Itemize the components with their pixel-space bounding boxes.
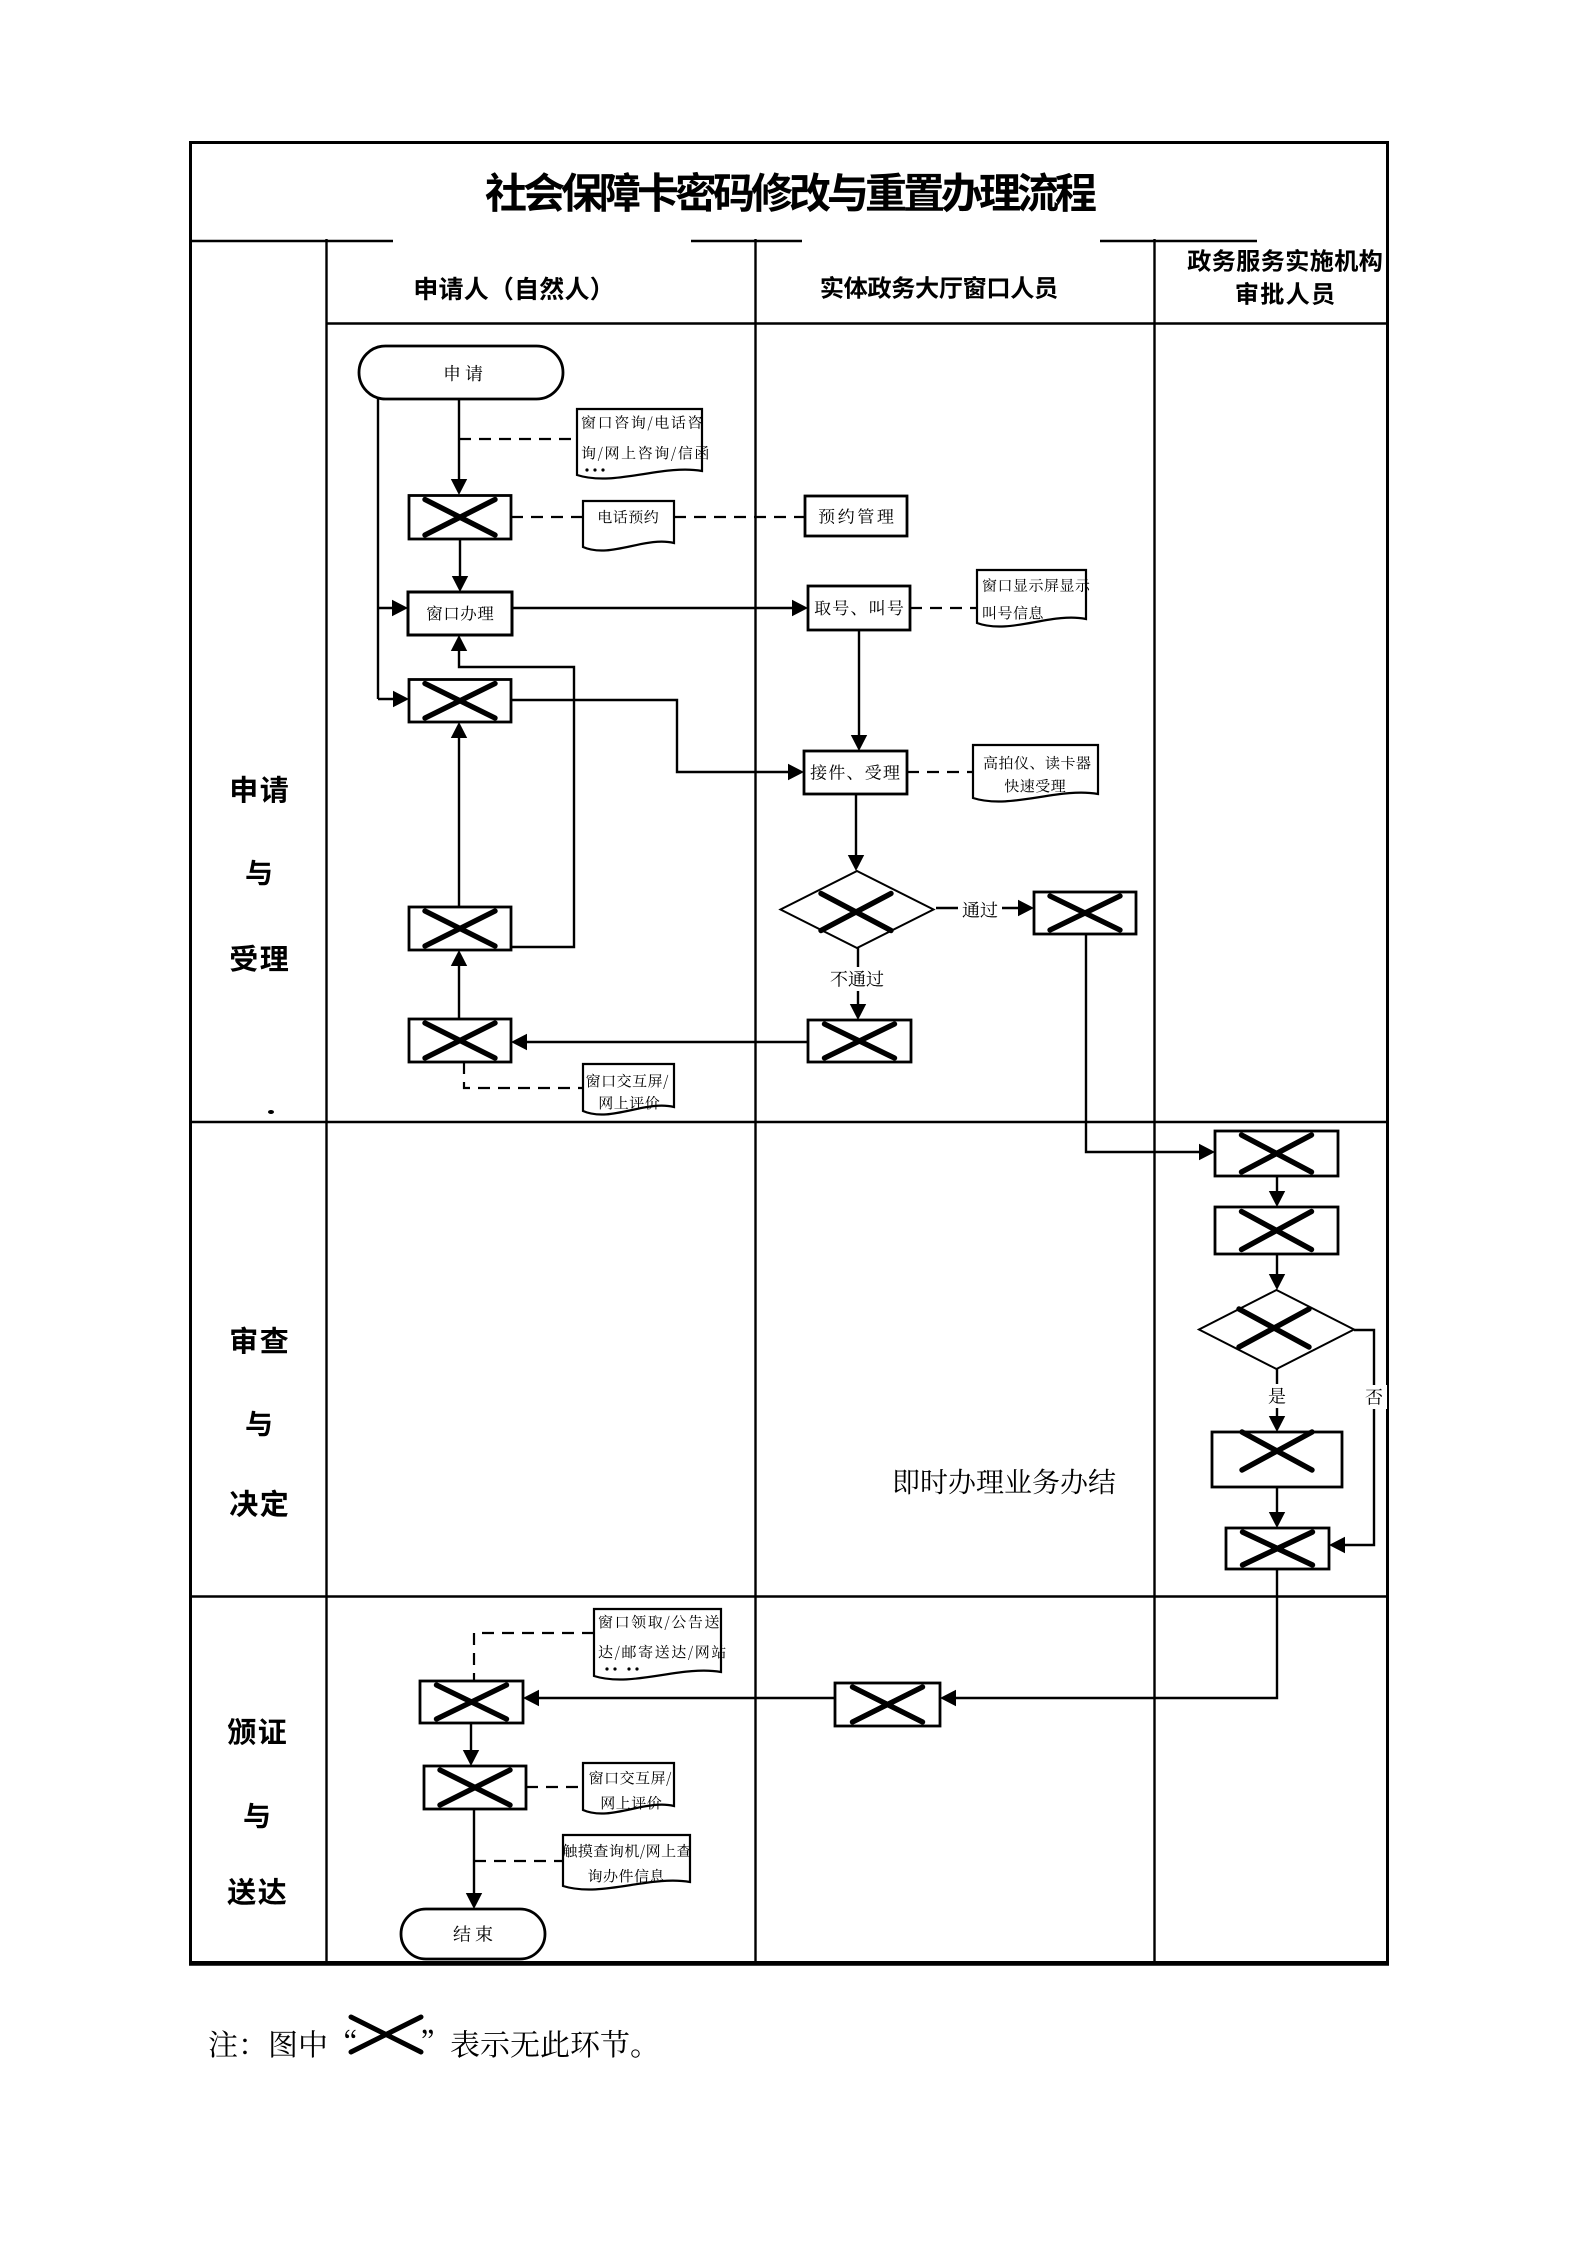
arrowhead into X2 left [393, 691, 409, 707]
wire X6 to X4 [527, 1041, 808, 1043]
col1/col2 lane divider [754, 239, 756, 1962]
process box 接件、受理 [804, 751, 907, 794]
row1 label 申请 [232, 776, 288, 803]
no-step box XC [1212, 1432, 1342, 1487]
arrowhead into end oval top [466, 1893, 482, 1909]
wire 取号叫号 to 接件受理 [858, 630, 860, 737]
footnote suffix ”表示无此环节。 [422, 2030, 639, 2058]
wire X2 right to 接件受理 [511, 700, 790, 772]
doc4 高拍仪、读卡器快速受理 [973, 745, 1098, 802]
doc6 line1 [589, 1771, 671, 1786]
arrowhead into 窗口办理 bottom [451, 635, 467, 651]
wire 接件受理 to diamond1 [855, 794, 857, 857]
doc2 电话预约 [583, 501, 674, 551]
wire XD down-left to XE [956, 1569, 1277, 1698]
arrowhead into XG top [463, 1750, 479, 1766]
row2 note 即时办理业务办结 [895, 1468, 1116, 1494]
no-step box XG [424, 1766, 526, 1809]
process box 预约管理 [805, 496, 907, 536]
decision diamond2 [1199, 1290, 1354, 1369]
end oval 结束 [401, 1909, 545, 1959]
no-step box XB [1215, 1207, 1338, 1254]
wire diamond2 bottom 是 to XC [1276, 1369, 1278, 1418]
doc5 窗口领取/公告送达/邮寄送达/网站 [594, 1609, 721, 1680]
doc5 line2 [599, 1645, 726, 1660]
wire XG to end oval [473, 1809, 475, 1895]
doc6 窗口交互屏/网上评价 [583, 1763, 674, 1814]
no-step box XF [420, 1681, 523, 1723]
doc4 line2 [1005, 779, 1066, 793]
label 是 [1264, 1384, 1290, 1408]
X inside diamond1 [821, 894, 891, 931]
wire oval1 left branch down [377, 393, 379, 699]
footnote prefix 注：图中“ [209, 2030, 356, 2058]
header col3 line1 政务服务实施机构 [1188, 249, 1382, 272]
wire X1 to 窗口办理 [459, 539, 461, 578]
doc2 text 电话预约 [599, 510, 658, 524]
arrowhead into X3 bottom [451, 950, 467, 966]
row divider 2 [191, 1595, 1387, 1597]
arrowhead into XC top [1269, 1416, 1285, 1432]
no-step box X6 [808, 1020, 911, 1062]
decision diamond1 [781, 871, 934, 948]
dashed link to doc1 [459, 438, 577, 440]
wire diamond1 bottom 不通过 to X6 [857, 948, 859, 1006]
arrowhead into XD right [1329, 1537, 1345, 1553]
no-step box X5 [1034, 892, 1136, 934]
arrowhead into XE right [940, 1690, 956, 1706]
wire oval1 to X1 [458, 399, 460, 481]
wire 窗口办理 to 取号叫号 [512, 607, 794, 609]
arrowhead into X2 bottom [451, 722, 467, 738]
wire branch into 窗口办理 left [378, 607, 395, 609]
wire X3 up to X2 [458, 736, 460, 907]
row1 label 受理 [230, 945, 288, 972]
label column divider [325, 239, 327, 1962]
wire diamond1 right 通过 to X5 [936, 907, 1020, 909]
arrowhead into XB top [1269, 1191, 1285, 1207]
no-step box XD [1226, 1528, 1329, 1569]
row3 label 颁证 [228, 1718, 286, 1745]
footnote X symbol [351, 2017, 421, 2052]
dashed X1 to doc2 [511, 516, 583, 518]
feedback X3 to 窗口办理 bottom [459, 649, 574, 947]
doc1 dots [585, 468, 588, 471]
arrowhead into X5 left [1018, 900, 1034, 916]
arrowhead into X1 top [451, 479, 467, 495]
row2 label 决定 [230, 1489, 288, 1517]
no-step box XA [1215, 1131, 1338, 1176]
doc8 窗口交互屏/网上评价 [583, 1064, 674, 1115]
outer table border [191, 143, 1388, 1963]
label 不通过 [826, 967, 888, 991]
dashed X4 to doc8 [464, 1062, 583, 1088]
title 社会保障卡密码修改与重置办理流程 [486, 172, 1096, 212]
label 否 [1361, 1385, 1387, 1409]
doc4 line1 [984, 756, 1091, 770]
arrowhead into X4 right [511, 1034, 527, 1050]
no-step box X4 [409, 1019, 511, 1062]
wire diamond2 right 否 to XD [1345, 1330, 1374, 1545]
title row partial bottom border seg1 [190, 240, 393, 242]
dashed XG to doc6 [526, 1786, 583, 1788]
box text 预约管理 [819, 508, 894, 524]
arrowhead into diamond2 top [1269, 1274, 1285, 1290]
header col3 line2 审批人员 [1237, 282, 1334, 305]
header col1 申请人（自然人） [416, 277, 598, 301]
doc8 line1 [586, 1074, 668, 1089]
outer bottom border (thick) [189, 1961, 1389, 1966]
wire XE to XF [539, 1697, 835, 1699]
label 通过 [958, 898, 1002, 922]
no-step box X2 [409, 680, 511, 723]
oval text 结束 [454, 1925, 493, 1942]
title row partial bottom border seg3 [1100, 240, 1257, 242]
doc5 dots [605, 1667, 608, 1670]
box text 接件、受理 [811, 764, 900, 780]
wire X4 up to X3 [458, 964, 460, 1019]
arrowhead into XF right [523, 1690, 539, 1706]
row3 label 送达 [227, 1878, 286, 1905]
arrowhead into 接件受理 left [788, 764, 804, 780]
doc1 line1 [582, 415, 702, 430]
row divider 1 [191, 1121, 1387, 1123]
col2/col3 lane divider [1153, 239, 1155, 1962]
no-step box XE [835, 1683, 940, 1726]
doc7 line1 [563, 1844, 691, 1859]
row3 label 与 [244, 1803, 268, 1829]
box text 窗口办理 [427, 605, 493, 620]
wire XB to diamond2 [1276, 1254, 1278, 1276]
doc1 窗口咨询/电话咨询/网上咨询/信函 [577, 409, 702, 479]
no-step box X1 [409, 496, 511, 540]
wire X5 down to XA [1086, 934, 1201, 1152]
arrowhead into 取号叫号 left [792, 600, 808, 616]
dashed 取号叫号 to doc3 [910, 607, 977, 609]
wire XA to XB [1276, 1176, 1278, 1193]
dashed doc5 to XF top [474, 1633, 594, 1681]
row2 label 审查 [231, 1326, 288, 1354]
doc8 line2 [600, 1096, 660, 1110]
no-step box X3 [409, 907, 511, 950]
doc3 line1 [983, 578, 1090, 592]
stray dot [268, 1110, 274, 1114]
box text 取号、叫号 [815, 600, 903, 616]
title row partial bottom border seg2 [691, 240, 802, 242]
dashed to doc7 [474, 1860, 563, 1862]
header row bottom border [327, 322, 1388, 324]
process box 窗口办理 [408, 592, 512, 635]
arrowhead into 接件受理 top [851, 735, 867, 751]
row2 label 与 [246, 1411, 270, 1437]
arrowhead into X6 top [850, 1004, 866, 1020]
doc6 line2 [602, 1796, 662, 1810]
process box 取号、叫号 [808, 586, 910, 630]
dashed 接件受理 to doc4 [907, 771, 973, 773]
arrowhead into diamond1 top [848, 855, 864, 871]
X inside diamond2 [1239, 1309, 1309, 1347]
arrowhead into XA left [1199, 1144, 1215, 1160]
doc3 窗口显示屏显示叫号信息 [977, 570, 1086, 627]
wire XF to XG [470, 1723, 472, 1752]
arrowhead into 窗口办理 left [392, 600, 408, 616]
oval text 申请 [446, 365, 483, 382]
start oval 申请 [359, 346, 563, 399]
doc5 line1 [599, 1615, 719, 1630]
doc7 触摸查询机/网上查询办件信息 [563, 1835, 690, 1890]
dashed doc2 to 预约管理 [674, 516, 805, 518]
header col2 实体政务大厅窗口人员 [821, 276, 1057, 299]
wire XC to XD [1276, 1487, 1278, 1514]
row1 label 与 [246, 860, 270, 886]
doc3 line2 [983, 606, 1042, 620]
arrowhead into 窗口办理 top [452, 576, 468, 592]
doc1 line2 [582, 446, 709, 461]
doc7 line2 [588, 1869, 664, 1883]
arrowhead into XD top [1269, 1512, 1285, 1528]
